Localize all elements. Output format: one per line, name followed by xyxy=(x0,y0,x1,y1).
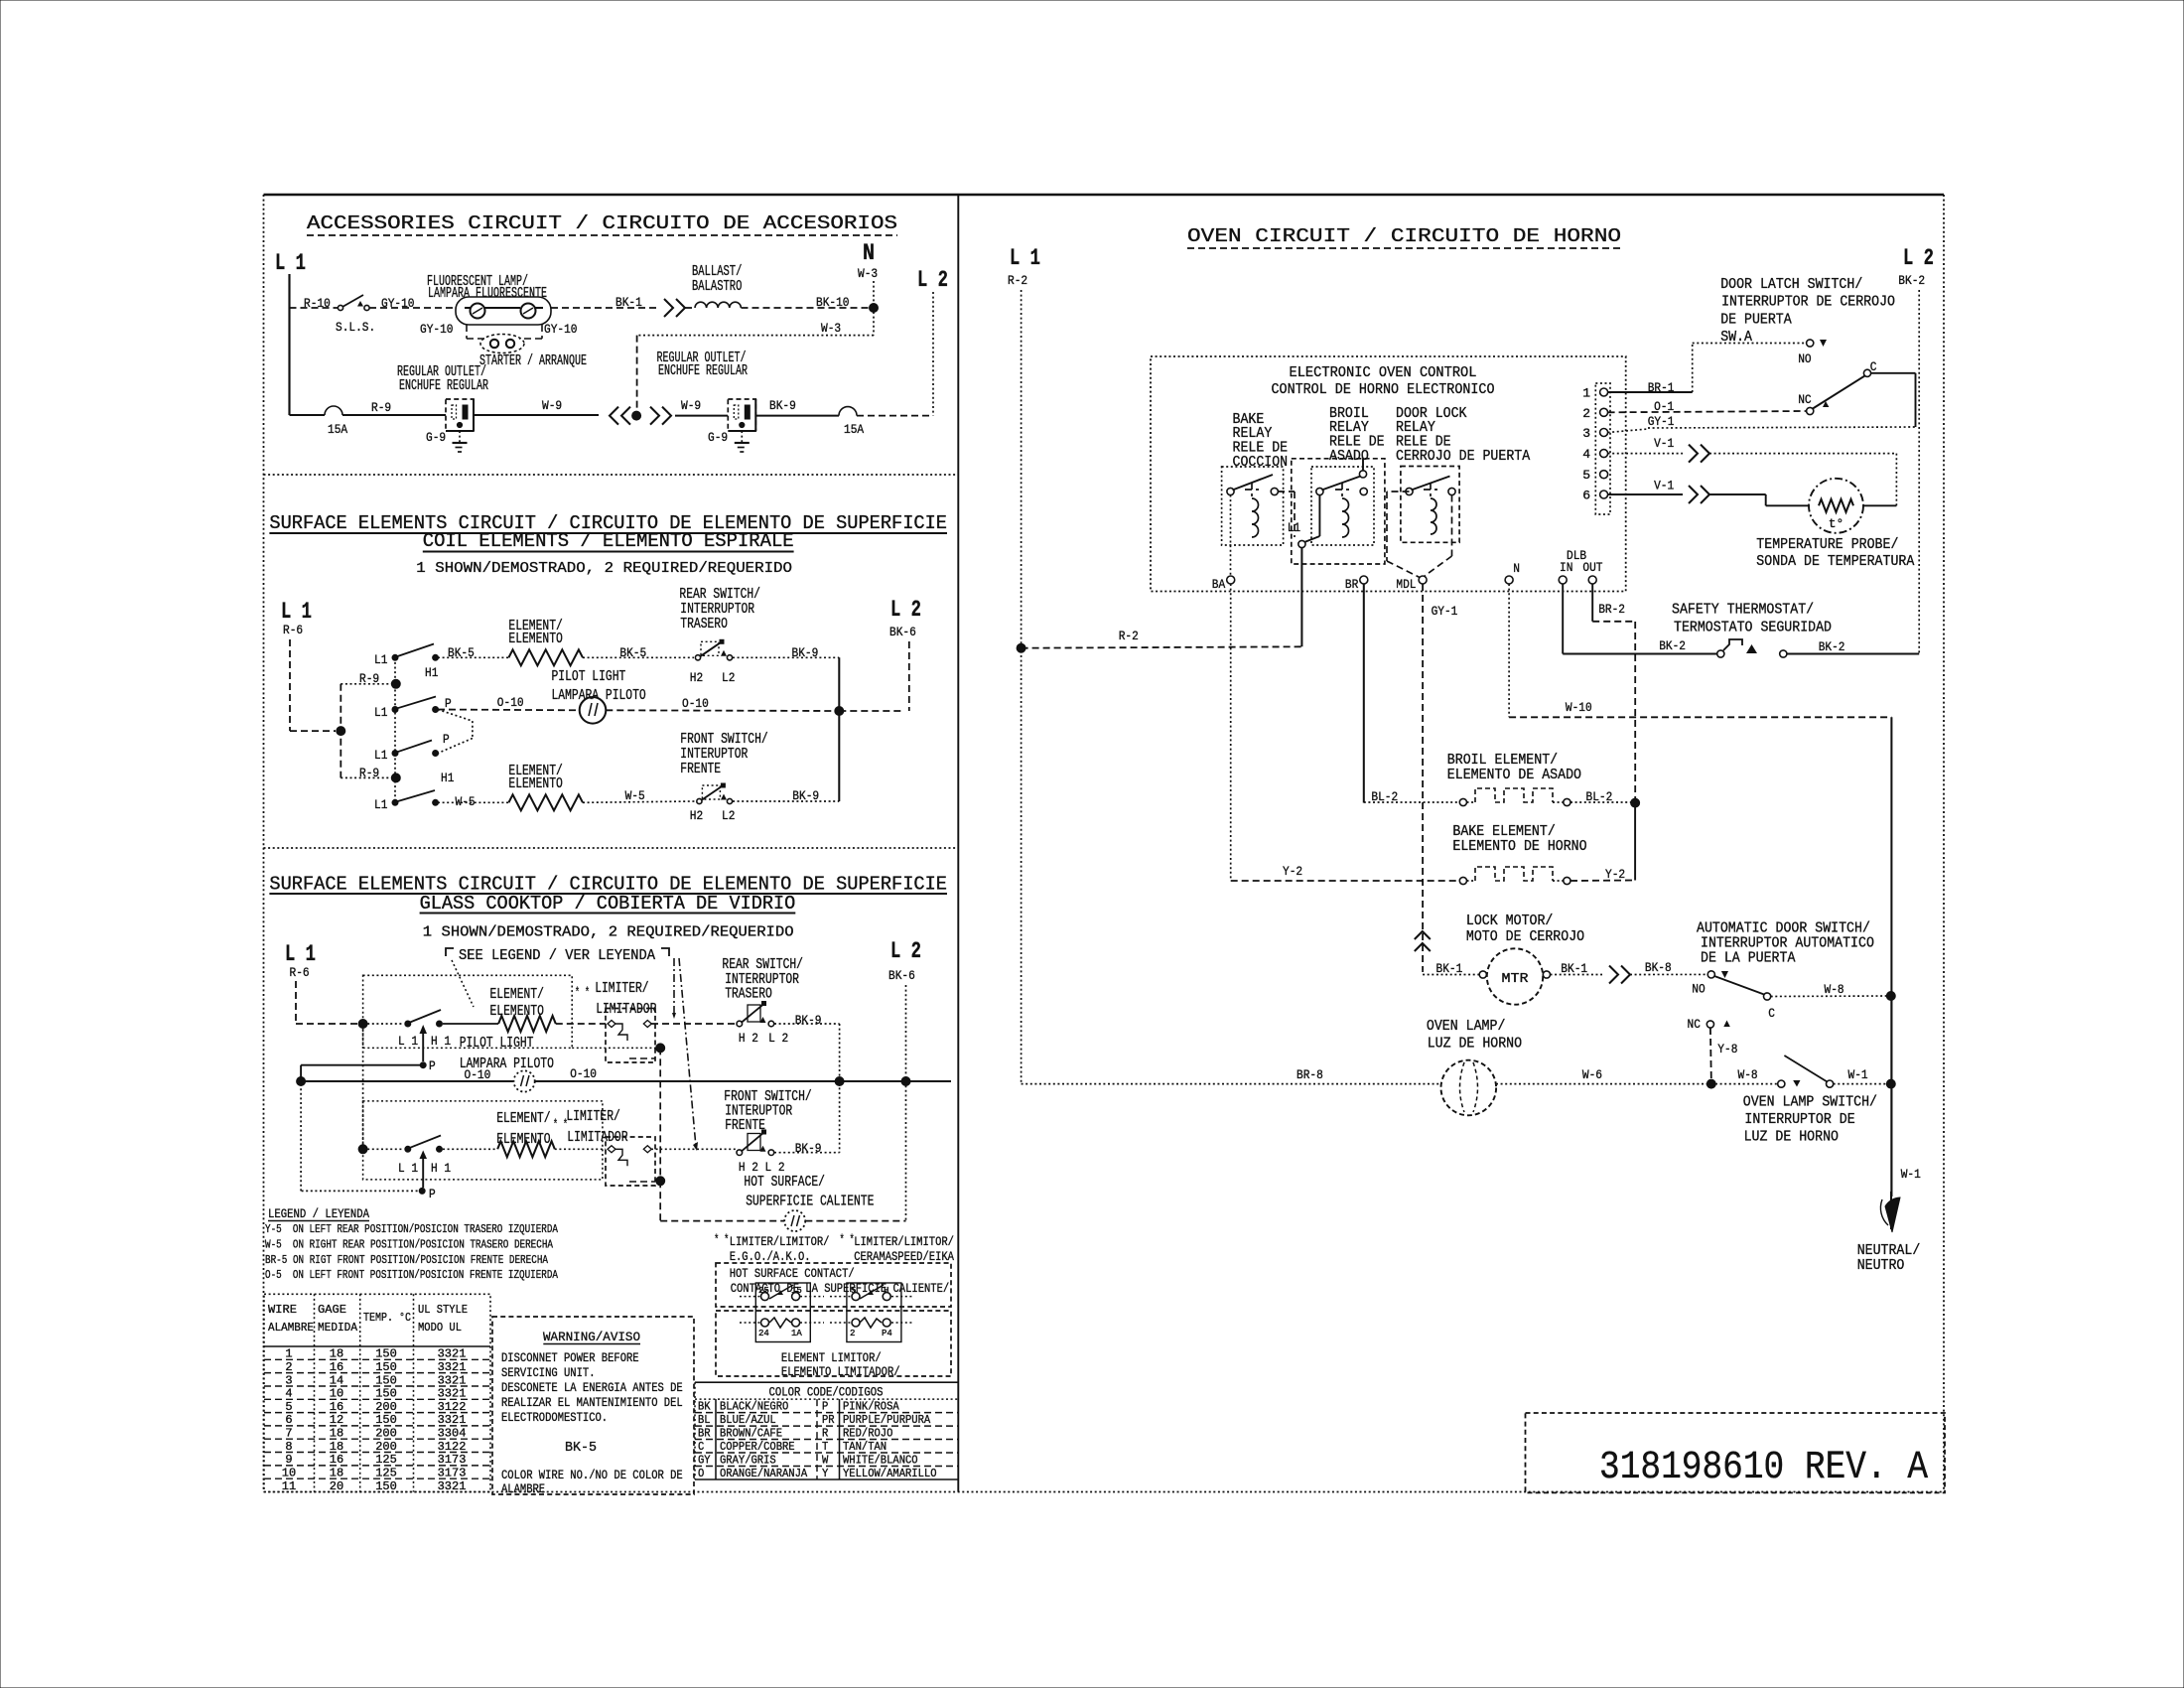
svg-text:BK: BK xyxy=(698,1400,711,1414)
temperature probe xyxy=(1809,479,1863,533)
svg-text:W-8: W-8 xyxy=(1738,1067,1758,1082)
svg-text:GY-10: GY-10 xyxy=(544,322,578,337)
svg-text:L 1: L 1 xyxy=(398,1034,418,1049)
svg-text:ENCHUFE REGULAR: ENCHUFE REGULAR xyxy=(658,362,748,379)
door lock relay xyxy=(1401,467,1459,543)
svg-text:LUZ DE HORNO: LUZ DE HORNO xyxy=(1428,1036,1522,1053)
svg-text:H2: H2 xyxy=(690,670,703,685)
svg-text:H 2: H 2 xyxy=(739,1031,758,1046)
svg-text:L1: L1 xyxy=(374,797,388,812)
svg-text:WHITE/BLANCO: WHITE/BLANCO xyxy=(843,1454,918,1468)
switch bus vertical coil xyxy=(394,657,396,802)
junction BK-10/N xyxy=(870,304,879,313)
svg-text:SERVICING UNIT.: SERVICING UNIT. xyxy=(501,1365,596,1380)
wire BR-2 down to bake xyxy=(1634,803,1636,881)
svg-text:WARNING/AVISO: WARNING/AVISO xyxy=(543,1330,640,1344)
wire L1 vertical xyxy=(288,274,290,415)
wire BK-6 coil xyxy=(908,641,910,711)
svg-text:200: 200 xyxy=(375,1400,397,1414)
door latch switch NC contact xyxy=(1807,407,1814,414)
svg-text:GY-1: GY-1 xyxy=(1648,414,1675,429)
svg-text:ALAMBRE: ALAMBRE xyxy=(501,1481,545,1496)
svg-text:200: 200 xyxy=(375,1427,397,1441)
wire BR to broil element xyxy=(1363,584,1365,803)
oven lamp xyxy=(1441,1060,1497,1116)
wire limiter to rear switch glass xyxy=(651,1023,736,1025)
svg-text:5: 5 xyxy=(1582,468,1590,483)
svg-text:Y-2: Y-2 xyxy=(1283,864,1302,879)
junction R-6 bus xyxy=(337,727,345,736)
svg-text:ELEMENTO DE ASADO: ELEMENTO DE ASADO xyxy=(1447,767,1581,783)
svg-text:H 1: H 1 xyxy=(431,1161,451,1176)
bake relay xyxy=(1222,467,1284,545)
P link coil xyxy=(438,710,473,722)
svg-text:W-8: W-8 xyxy=(1825,982,1844,997)
svg-text:W-9: W-9 xyxy=(681,398,701,413)
svg-text:L 2: L 2 xyxy=(765,1160,785,1175)
svg-text:150: 150 xyxy=(375,1479,397,1493)
wire P rear glass xyxy=(301,1064,423,1066)
svg-text:W-6: W-6 xyxy=(1582,1067,1602,1082)
svg-text:L1: L1 xyxy=(374,705,388,720)
svg-text:REALIZAR EL MANTENIMIENTO DEL: REALIZAR EL MANTENIMIENTO DEL xyxy=(501,1395,683,1410)
svg-text:H 1: H 1 xyxy=(431,1034,451,1049)
group box element front glass xyxy=(363,1101,603,1180)
svg-text:BK-9: BK-9 xyxy=(769,398,796,413)
connector pin 2 xyxy=(1600,408,1608,416)
section divider 2 xyxy=(264,847,959,849)
connector pin 6 xyxy=(1600,491,1608,498)
svg-text:BR-2: BR-2 xyxy=(1598,602,1625,617)
switch front glass xyxy=(405,1146,411,1152)
svg-text:18: 18 xyxy=(330,1440,343,1454)
svg-text:P: P xyxy=(429,1187,436,1201)
P arrow front glass xyxy=(422,1157,424,1188)
svg-text:H1: H1 xyxy=(425,665,439,680)
svg-text:L 1: L 1 xyxy=(281,599,312,625)
svg-text:GRAY/GRIS: GRAY/GRIS xyxy=(720,1454,776,1468)
wire R-2 bus xyxy=(1017,643,1025,652)
svg-text:9: 9 xyxy=(285,1453,292,1467)
svg-text:3321: 3321 xyxy=(438,1413,467,1427)
svg-text:INTERRUPTOR DE CERROJO: INTERRUPTOR DE CERROJO xyxy=(1721,294,1895,311)
svg-text:SW.A: SW.A xyxy=(1720,329,1752,346)
svg-text:BK-1: BK-1 xyxy=(1436,961,1463,976)
svg-text:N: N xyxy=(1513,561,1520,576)
svg-text:OVEN LAMP/: OVEN LAMP/ xyxy=(1427,1018,1506,1035)
svg-text:8: 8 xyxy=(285,1440,292,1454)
svg-text:NO: NO xyxy=(1692,982,1706,997)
svg-text:3321: 3321 xyxy=(438,1360,467,1374)
svg-text:GY: GY xyxy=(698,1454,711,1468)
switch S.L.S. xyxy=(338,305,342,310)
svg-text:TRASERO: TRASERO xyxy=(680,616,728,633)
svg-text:6: 6 xyxy=(1582,489,1590,503)
junction limiter rear xyxy=(656,1044,665,1053)
svg-text:1: 1 xyxy=(285,1347,292,1361)
svg-text:DE PUERTA: DE PUERTA xyxy=(1720,312,1792,329)
svg-text:RED/ROJO: RED/ROJO xyxy=(843,1427,892,1441)
svg-text:16: 16 xyxy=(330,1453,343,1467)
svg-text:L 2: L 2 xyxy=(890,938,921,964)
svg-text:14: 14 xyxy=(330,1373,343,1387)
svg-text:150: 150 xyxy=(375,1360,397,1374)
svg-text:L 1: L 1 xyxy=(275,250,306,276)
svg-text:* *: * * xyxy=(840,1232,855,1247)
svg-text:* *: * * xyxy=(714,1232,729,1247)
svg-text:Y: Y xyxy=(822,1467,828,1480)
svg-text:3122: 3122 xyxy=(438,1440,467,1454)
svg-text:BROWN/CAFE: BROWN/CAFE xyxy=(720,1427,782,1441)
svg-text:MEDIDA: MEDIDA xyxy=(318,1321,358,1335)
svg-text:COLOR CODE/CODIGOS: COLOR CODE/CODIGOS xyxy=(769,1385,884,1400)
svg-text:ELECTRONIC OVEN CONTROL: ELECTRONIC OVEN CONTROL xyxy=(1290,364,1477,381)
junction W-8 xyxy=(1886,992,1895,1001)
svg-text:BALASTRO: BALASTRO xyxy=(692,278,742,295)
svg-text:SEE LEGEND / VER LEYENDA: SEE LEGEND / VER LEYENDA xyxy=(459,947,655,964)
svg-text:25: 25 xyxy=(758,1286,769,1296)
junction R-9 lower xyxy=(391,774,400,782)
svg-text:DESCONETE LA ENERGIA ANTES DE: DESCONETE LA ENERGIA ANTES DE xyxy=(501,1380,683,1395)
junction L1 rear glass xyxy=(358,1020,367,1029)
switch rear glass xyxy=(405,1021,411,1027)
svg-text:GLASS COOKTOP / COBIERTA DE VI: GLASS COOKTOP / COBIERTA DE VIDRIO xyxy=(420,893,796,914)
svg-text:BK-8: BK-8 xyxy=(1645,960,1672,975)
svg-text:BK-9: BK-9 xyxy=(795,1013,822,1028)
connector pin 5 xyxy=(1600,471,1608,479)
svg-text:GAGE: GAGE xyxy=(318,1303,346,1317)
svg-text:Y-5 ON LEFT REAR POSITION/POS: Y-5 ON LEFT REAR POSITION/POSICION TRASE… xyxy=(265,1222,559,1236)
wire L1 feed xyxy=(1300,548,1302,647)
svg-text:OVEN LAMP SWITCH/: OVEN LAMP SWITCH/ xyxy=(1743,1094,1877,1111)
svg-text:L2: L2 xyxy=(722,670,735,685)
svg-text:L 1: L 1 xyxy=(1010,245,1040,271)
chevron connector BK-1 xyxy=(664,299,673,317)
svg-text:15A: 15A xyxy=(844,422,864,437)
svg-text:BK-2: BK-2 xyxy=(1659,638,1686,653)
svg-text:BA: BA xyxy=(1212,577,1226,592)
svg-text:1: 1 xyxy=(1582,386,1590,401)
svg-text:YELLOW/AMARILLO: YELLOW/AMARILLO xyxy=(843,1467,937,1480)
svg-text:ELECTRODOMESTICO.: ELECTRODOMESTICO. xyxy=(501,1410,608,1425)
svg-text:L 2: L 2 xyxy=(917,267,948,293)
svg-text:2: 2 xyxy=(1582,406,1590,421)
wire R-9 bus vertical xyxy=(340,684,341,778)
svg-text:318198610 REV. A: 318198610 REV. A xyxy=(1599,1446,1928,1490)
svg-text:L 1: L 1 xyxy=(398,1161,418,1176)
wire N pin to W-10 xyxy=(1508,584,1510,717)
wire gauge table xyxy=(264,1294,490,1491)
svg-text:DOOR LATCH SWITCH/: DOOR LATCH SWITCH/ xyxy=(1720,276,1862,293)
svg-text:3: 3 xyxy=(285,1373,292,1387)
svg-text:4: 4 xyxy=(1582,447,1590,462)
wire L1 oven vertical xyxy=(1021,290,1023,1084)
wire limiter to hot surface xyxy=(659,1048,661,1181)
svg-text:O-10: O-10 xyxy=(570,1066,597,1081)
svg-text:3173: 3173 xyxy=(438,1453,467,1467)
junction limiter front xyxy=(656,1177,665,1186)
svg-text:18: 18 xyxy=(330,1427,343,1441)
svg-text:T: T xyxy=(822,1440,828,1454)
broil relay xyxy=(1311,467,1374,545)
svg-text:P: P xyxy=(443,732,450,747)
svg-text:1 SHOWN/DEMOSTRADO, 2 REQUIRED: 1 SHOWN/DEMOSTRADO, 2 REQUIRED/REQUERIDO xyxy=(423,924,794,941)
svg-text:O-5 ON LEFT FRONT POSITION/PO: O-5 ON LEFT FRONT POSITION/POSICION FREN… xyxy=(265,1268,559,1282)
svg-text:P: P xyxy=(429,1058,436,1073)
svg-text:HOT SURFACE CONTACT/: HOT SURFACE CONTACT/ xyxy=(730,1266,855,1281)
svg-text:ACCESSORIES CIRCUIT / CIRCUITO: ACCESSORIES CIRCUIT / CIRCUITO DE ACCESO… xyxy=(307,212,897,234)
svg-text:PURPLE/PURPURA: PURPLE/PURPURA xyxy=(843,1413,931,1427)
svg-text:C: C xyxy=(1870,359,1877,374)
svg-text:S.L.S.: S.L.S. xyxy=(336,320,375,335)
svg-text:CERAMASPEED/EIKA: CERAMASPEED/EIKA xyxy=(854,1249,954,1264)
junction L1 front glass xyxy=(358,1145,367,1154)
svg-text:DE LA PUERTA: DE LA PUERTA xyxy=(1701,950,1795,967)
svg-text:ORANGE/NARANJA: ORANGE/NARANJA xyxy=(720,1467,808,1480)
svg-text:GY-1: GY-1 xyxy=(1432,604,1458,619)
svg-text:BL-2: BL-2 xyxy=(1371,789,1398,804)
svg-text:R-2: R-2 xyxy=(1008,273,1027,288)
leader line right long xyxy=(679,958,696,1147)
wire W-1 down xyxy=(1890,996,1892,1196)
svg-text:* *: * * xyxy=(575,985,590,1000)
svg-text:200: 200 xyxy=(375,1440,397,1454)
svg-text:MODO UL: MODO UL xyxy=(418,1321,462,1335)
wire P front glass xyxy=(301,1190,422,1192)
svg-text:150: 150 xyxy=(375,1387,397,1401)
pilot light glass xyxy=(514,1070,535,1091)
wire BA to bake element xyxy=(1230,584,1232,881)
svg-text:ELEMENTO: ELEMENTO xyxy=(490,1003,544,1020)
svg-text:ELEMENT/: ELEMENT/ xyxy=(496,1110,550,1127)
svg-text:6: 6 xyxy=(285,1413,292,1427)
svg-text:L 2: L 2 xyxy=(890,597,921,623)
svg-text:BK-2: BK-2 xyxy=(1898,273,1925,288)
svg-text:INTERRUPTOR DE: INTERRUPTOR DE xyxy=(1744,1111,1854,1128)
svg-text:LEGEND / LEYENDA: LEGEND / LEYENDA xyxy=(268,1206,369,1221)
svg-text:LIMITADOR: LIMITADOR xyxy=(567,1129,627,1146)
svg-text:1A: 1A xyxy=(791,1329,802,1338)
svg-text:11: 11 xyxy=(282,1479,296,1493)
svg-text:BK-9: BK-9 xyxy=(795,1141,822,1156)
svg-text:BK-5: BK-5 xyxy=(565,1440,597,1456)
svg-text:W-10: W-10 xyxy=(1566,700,1592,715)
svg-text:W-1: W-1 xyxy=(1901,1167,1921,1182)
svg-text:1 SHOWN/DEMOSTRADO, 2 REQUIRED: 1 SHOWN/DEMOSTRADO, 2 REQUIRED/REQUERIDO xyxy=(416,560,792,577)
svg-text:W: W xyxy=(822,1454,829,1468)
svg-text:W-9: W-9 xyxy=(542,398,562,413)
svg-text:SONDA DE TEMPERATURA: SONDA DE TEMPERATURA xyxy=(1756,553,1914,570)
svg-text:ELEMENTO: ELEMENTO xyxy=(508,775,562,792)
svg-text:TERMOSTATO SEGURIDAD: TERMOSTATO SEGURIDAD xyxy=(1674,620,1832,636)
svg-text:W-1: W-1 xyxy=(1848,1067,1868,1082)
svg-text:BR-8: BR-8 xyxy=(1297,1067,1323,1082)
svg-text:24: 24 xyxy=(758,1329,769,1338)
svg-text:BLUE/AZUL: BLUE/AZUL xyxy=(720,1413,776,1427)
svg-text:150: 150 xyxy=(375,1347,397,1361)
svg-text:3: 3 xyxy=(1582,426,1590,441)
svg-text:UL STYLE: UL STYLE xyxy=(418,1303,468,1317)
svg-text:BR-5 ON RIGT FRONT POSITION/PO: BR-5 ON RIGT FRONT POSITION/POSICION FRE… xyxy=(265,1253,549,1267)
chevrons junction W-9 xyxy=(621,407,630,425)
svg-text:BK-9: BK-9 xyxy=(792,645,819,660)
svg-text:18: 18 xyxy=(330,1467,343,1480)
svg-text:TEMP. °C: TEMP. °C xyxy=(363,1311,411,1325)
svg-text:W-5: W-5 xyxy=(625,788,645,803)
svg-text:5: 5 xyxy=(285,1400,292,1414)
svg-text:TEMPERATURE PROBE/: TEMPERATURE PROBE/ xyxy=(1756,536,1898,553)
svg-text:t°: t° xyxy=(1829,516,1844,531)
svg-text:FRENTE: FRENTE xyxy=(680,761,721,777)
svg-text:3321: 3321 xyxy=(438,1387,467,1401)
svg-text:WIRE: WIRE xyxy=(268,1303,297,1317)
svg-text:G-9: G-9 xyxy=(708,430,728,445)
svg-text:PILOT LIGHT: PILOT LIGHT xyxy=(552,668,626,685)
svg-text:COIL ELEMENTS / ELEMENTO ESPIR: COIL ELEMENTS / ELEMENTO ESPIRALE xyxy=(423,530,794,552)
broil relay outer box xyxy=(1292,459,1385,564)
svg-text:L 2: L 2 xyxy=(768,1031,788,1046)
title block xyxy=(1526,1413,1946,1492)
electronic oven control box xyxy=(1151,356,1626,592)
svg-text:P: P xyxy=(822,1400,828,1414)
wire N to junction xyxy=(873,281,875,304)
svg-text:H: H xyxy=(884,1286,888,1296)
svg-text:E.G.O./A.K.O.: E.G.O./A.K.O. xyxy=(730,1249,811,1264)
svg-text:BL: BL xyxy=(698,1413,711,1427)
svg-text:R-9: R-9 xyxy=(371,400,391,415)
svg-text:3321: 3321 xyxy=(438,1373,467,1387)
svg-text:H 2: H 2 xyxy=(739,1160,758,1175)
junction R-9 upper xyxy=(391,679,400,688)
chevrons MDL xyxy=(1415,931,1431,939)
svg-text:PILOT LIGHT: PILOT LIGHT xyxy=(460,1035,534,1052)
svg-text:COCCION: COCCION xyxy=(1233,454,1289,471)
svg-text:OUT: OUT xyxy=(1582,560,1602,575)
svg-text:H1: H1 xyxy=(441,771,455,785)
wire L2 vertical xyxy=(932,292,934,415)
svg-text:OVEN CIRCUIT / CIRCUITO DE HOR: OVEN CIRCUIT / CIRCUITO DE HORNO xyxy=(1187,225,1621,247)
svg-text:HOT SURFACE/: HOT SURFACE/ xyxy=(744,1174,825,1191)
svg-text:O: O xyxy=(698,1467,704,1480)
section divider 1 xyxy=(264,474,959,476)
svg-text:R-6: R-6 xyxy=(283,623,303,637)
connector pin 3 xyxy=(1600,429,1608,437)
svg-text:LAMPARA PILOTO: LAMPARA PILOTO xyxy=(552,687,646,704)
left panel border xyxy=(264,194,1945,196)
junction W-1 xyxy=(1886,1079,1895,1088)
svg-text:O-10: O-10 xyxy=(497,695,524,710)
svg-text:LAMPARA FLUORESCENTE: LAMPARA FLUORESCENTE xyxy=(428,285,547,302)
warning box xyxy=(492,1317,694,1494)
chevrons BK-1 xyxy=(1609,966,1618,984)
svg-text:16: 16 xyxy=(330,1360,343,1374)
svg-text:R-2: R-2 xyxy=(1119,629,1139,643)
P arrow rear glass xyxy=(422,1032,424,1061)
svg-text:LIMITER/LIMITOR/: LIMITER/LIMITOR/ xyxy=(854,1234,954,1249)
svg-text:ELEMENT/: ELEMENT/ xyxy=(490,986,544,1003)
door latch switch blade xyxy=(1813,376,1865,409)
wire C to GY-1 xyxy=(1871,372,1916,374)
svg-text:BK-6: BK-6 xyxy=(889,625,916,639)
svg-text:NC: NC xyxy=(1798,392,1812,407)
connector pin 4 xyxy=(1600,450,1608,458)
leader line left xyxy=(452,960,474,1007)
automatic door switch blade xyxy=(1714,976,1764,995)
svg-text:TRASERO: TRASERO xyxy=(725,986,772,1003)
svg-text:IN: IN xyxy=(1560,560,1572,575)
junction BK-6 main glass xyxy=(901,1077,910,1086)
svg-text:LUZ DE HORNO: LUZ DE HORNO xyxy=(1744,1129,1839,1146)
color code table xyxy=(695,1381,958,1383)
svg-text:NO: NO xyxy=(1798,352,1812,366)
starter xyxy=(466,325,468,339)
junction Y-8 lamp row xyxy=(1706,1079,1715,1088)
svg-text:SAFETY THERMOSTAT/: SAFETY THERMOSTAT/ xyxy=(1672,602,1814,619)
svg-text:ALAMBRE: ALAMBRE xyxy=(268,1321,314,1335)
junction O-10 BK-9 xyxy=(835,707,844,716)
leader line right short xyxy=(673,958,675,1013)
wire IN to safety thermostat xyxy=(1562,584,1564,654)
svg-text:L 2: L 2 xyxy=(1903,245,1934,271)
wire door lock relay to MDL xyxy=(1387,491,1410,492)
svg-text:R: R xyxy=(822,1427,828,1441)
svg-text:COLOR WIRE NO./NO DE COLOR DE: COLOR WIRE NO./NO DE COLOR DE xyxy=(501,1468,683,1482)
svg-text:Y-8: Y-8 xyxy=(1717,1042,1737,1056)
left bus glass xyxy=(362,1024,364,1149)
svg-text:ENCHUFE REGULAR: ENCHUFE REGULAR xyxy=(399,377,488,394)
svg-text:ELEMENTO: ELEMENTO xyxy=(508,631,562,647)
junction BK-9 main glass xyxy=(835,1077,844,1086)
svg-text:BR: BR xyxy=(1345,577,1359,592)
svg-text:L1: L1 xyxy=(374,652,388,667)
junction main left glass xyxy=(297,1077,306,1086)
door latch switch NO contact xyxy=(1807,340,1814,347)
connector P1 box xyxy=(1595,383,1610,514)
svg-text:125: 125 xyxy=(375,1453,397,1467)
svg-text:MDL: MDL xyxy=(1396,577,1416,592)
oven lamp switch xyxy=(1778,1080,1785,1087)
automatic door switch NO xyxy=(1707,971,1714,978)
svg-text:ELEMENTO LIMITADOR/: ELEMENTO LIMITADOR/ xyxy=(781,1364,900,1379)
automatic door switch NC xyxy=(1706,1021,1713,1028)
svg-text:BK-2: BK-2 xyxy=(1819,639,1845,654)
svg-text:125: 125 xyxy=(375,1467,397,1480)
svg-text:150: 150 xyxy=(375,1413,397,1427)
svg-text:COPPER/COBRE: COPPER/COBRE xyxy=(720,1440,795,1454)
svg-text:L1: L1 xyxy=(1288,520,1301,535)
right panel border xyxy=(1943,195,1945,1492)
svg-text:LIMITER/: LIMITER/ xyxy=(566,1108,619,1125)
svg-text:W-3: W-3 xyxy=(821,321,841,336)
element limitor box A xyxy=(755,1283,810,1342)
svg-text:BLACK/NEGRO: BLACK/NEGRO xyxy=(720,1400,788,1414)
svg-text:MOTO DE CERROJO: MOTO DE CERROJO xyxy=(1466,928,1584,945)
svg-text:BK-6: BK-6 xyxy=(888,968,915,983)
svg-text:V-1: V-1 xyxy=(1654,436,1674,451)
svg-text:20: 20 xyxy=(330,1479,343,1493)
svg-text:O-10: O-10 xyxy=(682,696,709,711)
element limitor box B xyxy=(847,1283,901,1342)
svg-text:H2: H2 xyxy=(690,808,703,823)
svg-text:2: 2 xyxy=(285,1360,292,1374)
group box element rear glass xyxy=(363,975,573,1048)
svg-text:C: C xyxy=(698,1440,704,1454)
wire W-10 right vertical xyxy=(1890,717,1892,996)
svg-text:PINK/ROSA: PINK/ROSA xyxy=(843,1400,899,1414)
wire R-6 glass xyxy=(295,981,297,1024)
svg-text:DISCONNET POWER BEFORE: DISCONNET POWER BEFORE xyxy=(501,1350,639,1365)
svg-text:R-6: R-6 xyxy=(290,965,310,980)
